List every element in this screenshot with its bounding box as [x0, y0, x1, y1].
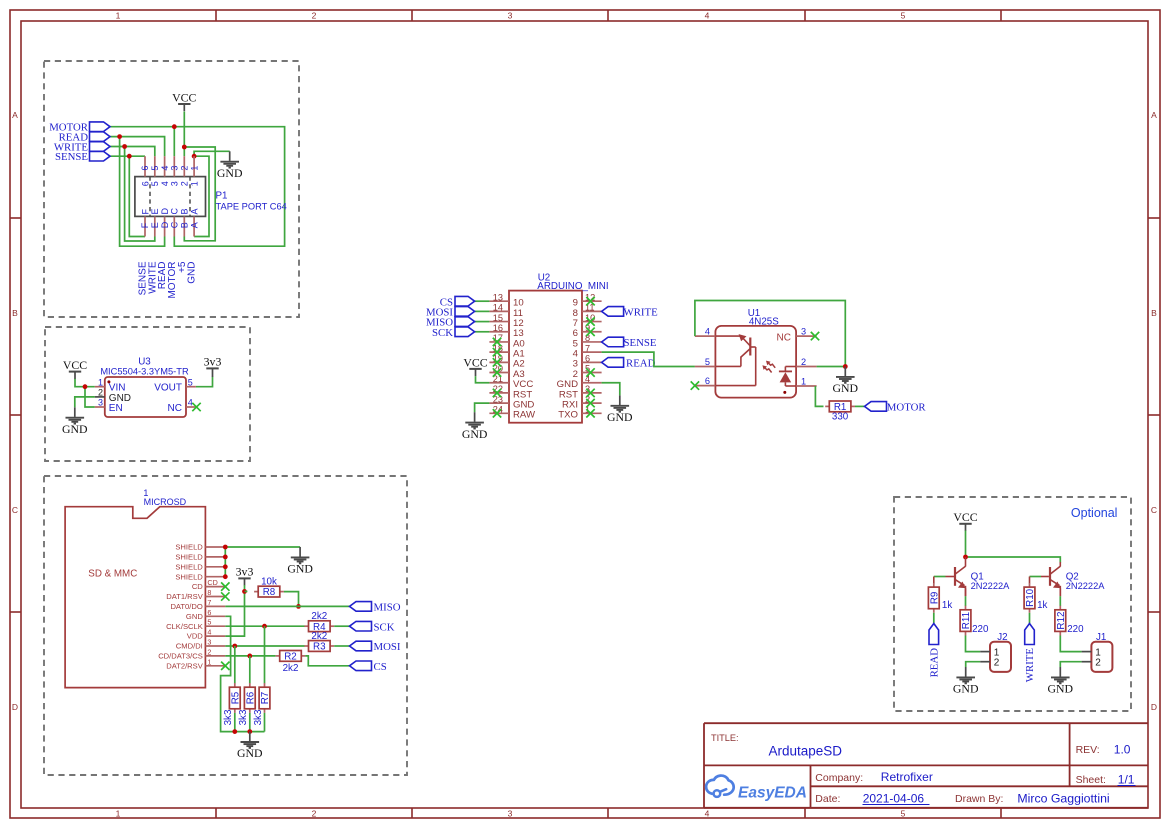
svg-text:1: 1 — [189, 166, 199, 171]
svg-text:ArdutapeSD: ArdutapeSD — [769, 744, 843, 759]
net flag MOTOR — [49, 122, 110, 134]
net flag CS (U2) — [475, 300, 490, 302]
svg-text:4: 4 — [160, 181, 170, 186]
wire SD GND pin to rail — [221, 616, 265, 731]
svg-text:D: D — [160, 208, 170, 215]
svg-text:10k: 10k — [261, 576, 277, 587]
ground GND (tape port) — [217, 151, 243, 180]
junction CLK/R7 — [262, 624, 267, 629]
wire CD/DAT3/CS to R2 — [225, 655, 275, 657]
regulator U3 MIC5504-3.3YM5-TR — [95, 357, 196, 418]
wire U2 GND pin23 to ground — [475, 403, 490, 412]
wire R10 to WRITE flag — [1029, 613, 1031, 624]
svg-text:5: 5 — [150, 166, 160, 171]
svg-text:2: 2 — [801, 357, 806, 367]
svg-text:GND: GND — [833, 381, 859, 395]
wire CLK/SCLK to R4 — [225, 625, 304, 627]
no-connect X at U1 pin6 — [691, 381, 699, 389]
svg-text:CS: CS — [374, 661, 387, 673]
svg-text:J1: J1 — [1096, 632, 1106, 643]
svg-text:5: 5 — [150, 181, 160, 186]
power 3v3 (U3) — [204, 354, 222, 377]
power VCC (tape port) — [172, 90, 196, 111]
svg-text:4: 4 — [705, 11, 710, 21]
svg-text:SD & MMC: SD & MMC — [88, 568, 137, 579]
svg-text:4: 4 — [160, 166, 170, 171]
svg-text:6: 6 — [705, 376, 710, 386]
ground GND (J1) — [1048, 667, 1074, 696]
wire SENSE net to pin 6 and pin F — [110, 156, 145, 236]
net flag WRITE (optional) — [1024, 624, 1036, 683]
svg-text:P1: P1 — [216, 191, 228, 202]
svg-text:Optional: Optional — [1071, 506, 1118, 520]
svg-text:TAPE PORT C64: TAPE PORT C64 — [216, 202, 287, 212]
svg-text:2k2: 2k2 — [311, 611, 327, 622]
svg-text:C: C — [170, 208, 180, 215]
svg-text:1: 1 — [116, 809, 121, 819]
flag shape MISO — [426, 317, 475, 329]
flag shape CS — [440, 296, 475, 308]
svg-text:3: 3 — [508, 809, 513, 819]
wire DAT0/DO to MISO flag — [225, 605, 349, 607]
svg-text:1: 1 — [190, 181, 200, 186]
svg-text:NC: NC — [777, 332, 791, 343]
junction at READ branch — [117, 134, 122, 139]
junction SHIELD 4 — [223, 574, 228, 579]
svg-text:R5: R5 — [230, 691, 241, 704]
no-connect X at U3 NC — [192, 403, 200, 411]
wire 3v3 to R8 and VDD — [225, 585, 244, 636]
svg-text:A: A — [12, 110, 18, 120]
svg-text:DAT1/RSV: DAT1/RSV — [166, 592, 204, 601]
ground GND (shield) — [287, 547, 313, 576]
no-connect X at U2 right 7 — [586, 317, 594, 325]
no-connect X at U1 NC pin3 — [811, 332, 819, 340]
resistor R8 — [254, 576, 284, 598]
net flag SCK — [350, 621, 395, 633]
svg-text:R12: R12 — [1056, 612, 1067, 630]
svg-text:SENSE: SENSE — [624, 337, 657, 349]
svg-text:1: 1 — [98, 377, 103, 387]
svg-text:6: 6 — [140, 166, 150, 171]
microcontroller U2 ARDUINO_MINI — [489, 272, 608, 422]
svg-text:4: 4 — [705, 327, 710, 337]
power VCC (U3) — [63, 358, 87, 379]
svg-text:3: 3 — [508, 11, 513, 21]
svg-text:SHIELD: SHIELD — [175, 562, 203, 571]
svg-text:1k: 1k — [1037, 600, 1047, 611]
EasyEDA logo — [706, 776, 807, 802]
wire R7 pullup — [264, 626, 266, 683]
svg-text:5: 5 — [207, 618, 211, 627]
svg-text:R10: R10 — [1025, 588, 1036, 607]
wire R6 bottom — [249, 713, 251, 732]
resistor R10 — [1024, 583, 1047, 613]
svg-text:SHIELD: SHIELD — [175, 553, 203, 562]
junction U1 ground — [843, 364, 848, 369]
svg-text:D: D — [1151, 702, 1157, 712]
resistor R1 — [825, 401, 855, 422]
svg-text:3: 3 — [207, 638, 211, 647]
svg-text:2N2222A: 2N2222A — [971, 581, 1011, 591]
svg-text:DAT2/RSV: DAT2/RSV — [166, 661, 204, 670]
svg-text:Date:: Date: — [815, 793, 840, 805]
svg-text:6: 6 — [585, 354, 590, 364]
svg-text:R9: R9 — [929, 592, 940, 605]
junction R6 bottom — [247, 729, 252, 734]
wire R1 to MOTOR flag — [855, 405, 865, 407]
wire U3 VOUT to 3v3 — [196, 377, 213, 387]
svg-text:R2: R2 — [284, 652, 297, 663]
svg-text:1k: 1k — [942, 600, 952, 611]
junction at U3 VIN — [83, 384, 88, 389]
svg-text:7: 7 — [207, 598, 211, 607]
svg-text:2: 2 — [312, 11, 317, 21]
transistor Q1 2N2222A — [955, 557, 1010, 596]
connector J2 — [980, 632, 1011, 672]
junction R5 bottom — [232, 729, 237, 734]
svg-text:2021-04-06: 2021-04-06 — [863, 792, 925, 806]
resistor R3 — [304, 631, 334, 653]
svg-text:Drawn By:: Drawn By: — [955, 793, 1003, 805]
power 3v3 (SD) — [236, 565, 254, 586]
svg-text:6: 6 — [140, 181, 150, 186]
svg-text:4N25S: 4N25S — [749, 317, 779, 328]
svg-text:SHIELD: SHIELD — [175, 572, 203, 581]
net labels under tape port — [138, 261, 198, 298]
transistor Q2 2N2222A — [1050, 562, 1105, 596]
no-connect X at CD — [221, 582, 229, 590]
svg-text:R11: R11 — [961, 612, 972, 629]
svg-text:4: 4 — [188, 398, 193, 408]
wire U3 GND pin to ground — [75, 397, 95, 407]
svg-text:5: 5 — [705, 357, 710, 367]
wire R4 to SCK flag — [334, 625, 349, 627]
svg-text:3: 3 — [170, 166, 180, 171]
svg-text:F: F — [140, 209, 150, 215]
resistor R11 — [960, 606, 989, 636]
svg-text:E: E — [150, 222, 160, 228]
svg-text:CD/DAT3/CS: CD/DAT3/CS — [158, 652, 203, 661]
wire R12 to J1 pin1 — [1060, 636, 1081, 652]
svg-text:B: B — [1151, 308, 1157, 318]
svg-text:2: 2 — [98, 388, 103, 398]
svg-text:MIC5504-3.3YM5-TR: MIC5504-3.3YM5-TR — [100, 367, 189, 377]
net flag MISO (U2) — [475, 321, 490, 323]
label Optional — [1071, 506, 1118, 520]
resistor R7 — [253, 683, 271, 725]
wire R2 to CS flag — [305, 656, 349, 666]
no-connect X at U2 left A1 — [493, 348, 501, 356]
net flag MOSI — [350, 641, 401, 653]
svg-text:CMD/DI: CMD/DI — [176, 642, 203, 651]
svg-text:D: D — [160, 221, 170, 228]
svg-text:C: C — [12, 505, 18, 515]
wire VCC to Q1 Q2 collectors — [966, 531, 1061, 563]
svg-text:TXO: TXO — [558, 410, 578, 421]
title block — [704, 723, 1148, 808]
wire U2 pin7 to U1 pin5 — [602, 352, 695, 366]
ground GND (U1) — [833, 367, 859, 396]
junction 3v3/R8 — [242, 589, 247, 594]
no-connect X at U2 right 9 — [586, 297, 594, 305]
svg-text:VOUT: VOUT — [154, 383, 182, 394]
svg-text:14: 14 — [493, 303, 503, 313]
ground GND (J2) — [953, 667, 979, 696]
wire Q1 emitter to R11 — [965, 588, 967, 606]
svg-text:13: 13 — [493, 292, 503, 302]
junction VCC optional — [963, 555, 968, 560]
svg-text:220: 220 — [972, 624, 989, 635]
svg-text:GND: GND — [217, 166, 243, 180]
svg-text:3v3: 3v3 — [236, 565, 254, 579]
wire U1 pin1 to R1 — [815, 386, 823, 406]
power VCC (optional) — [953, 510, 977, 531]
svg-text:2: 2 — [180, 166, 190, 171]
svg-text:R3: R3 — [313, 642, 326, 653]
svg-text:E: E — [150, 208, 160, 214]
svg-text:J2: J2 — [997, 632, 1007, 643]
flag shape MOSI — [426, 306, 475, 318]
junction SHIELD 1 — [223, 545, 228, 550]
svg-text:A: A — [189, 222, 199, 228]
svg-text:3k3: 3k3 — [223, 709, 234, 725]
wire R5 pullup — [234, 646, 236, 683]
svg-text:WRITE: WRITE — [1024, 648, 1036, 683]
svg-text:RAW: RAW — [513, 410, 536, 421]
no-connect X at U2 left A0 — [493, 338, 501, 346]
wire R8 left — [245, 590, 248, 592]
ground GND (U3) — [62, 407, 88, 436]
svg-text:WRITE: WRITE — [624, 306, 659, 318]
ground GND (U2 right) — [607, 395, 633, 424]
wire R6 pullup — [249, 656, 251, 684]
svg-text:GND: GND — [187, 262, 198, 284]
net flag READ — [602, 357, 656, 369]
svg-text:1/1: 1/1 — [1118, 773, 1135, 787]
svg-text:SHIELD: SHIELD — [175, 543, 203, 552]
svg-text:7: 7 — [585, 343, 590, 353]
wire Q2 emitter to R12 — [1059, 588, 1061, 606]
connector J1 — [1082, 632, 1113, 672]
svg-text:3: 3 — [98, 398, 103, 408]
svg-text:A: A — [1151, 110, 1157, 120]
svg-text:A: A — [190, 208, 200, 214]
wire Q1 base to R9 — [934, 577, 954, 584]
svg-text:CLK/SCLK: CLK/SCLK — [166, 622, 203, 631]
svg-text:1: 1 — [116, 11, 121, 21]
svg-text:1.0: 1.0 — [1114, 743, 1131, 757]
junction at GND pin1 — [192, 154, 197, 159]
wire VCC to U3 VIN and EN — [75, 378, 95, 407]
wire SHIELD pins to ground — [225, 547, 300, 577]
svg-text:B: B — [180, 222, 190, 228]
svg-text:5: 5 — [188, 377, 193, 387]
net flag SCK (U2) — [475, 331, 490, 333]
svg-text:GND: GND — [607, 410, 633, 424]
svg-text:SCK: SCK — [374, 621, 395, 633]
svg-text:VCC: VCC — [172, 90, 196, 104]
wire U1 pin4 to ground — [695, 301, 845, 367]
resistor R4 — [304, 611, 334, 633]
svg-text:5: 5 — [901, 809, 906, 819]
svg-text:MISO: MISO — [374, 602, 401, 614]
svg-text:Retrofixer: Retrofixer — [881, 770, 933, 784]
svg-text:8: 8 — [207, 588, 211, 597]
section box: sd card — [44, 476, 407, 775]
wire MOTOR net to pin 3 and pin C — [110, 127, 285, 247]
power VCC (U2) — [463, 355, 487, 376]
junction at VCC branch — [182, 145, 187, 150]
svg-text:SENSE: SENSE — [55, 151, 88, 163]
svg-text:Mirco Gaggiottini: Mirco Gaggiottini — [1017, 792, 1109, 806]
ground GND (pulldowns) — [237, 732, 263, 761]
net flag READ — [59, 132, 110, 144]
svg-text:READ: READ — [626, 357, 656, 369]
svg-text:SCK: SCK — [432, 327, 453, 339]
svg-text:NC: NC — [168, 403, 182, 414]
no-connect X at U2 right 2 — [586, 368, 594, 376]
svg-text:B: B — [12, 308, 18, 318]
junction DAT3/R6 — [247, 654, 252, 659]
net flag WRITE — [54, 141, 110, 153]
svg-text:1: 1 — [801, 377, 806, 387]
svg-text:MICROSD: MICROSD — [144, 497, 187, 507]
svg-text:16: 16 — [493, 323, 503, 333]
svg-text:R8: R8 — [263, 587, 276, 598]
wire R3 to MOSI flag — [334, 645, 349, 647]
svg-text:2: 2 — [312, 809, 317, 819]
wire J2 pin2 to ground — [966, 662, 981, 667]
resistor R2 — [276, 651, 306, 674]
wire READ net to pin 4 and pin D — [110, 137, 165, 247]
net flag SENSE — [602, 337, 657, 349]
svg-text:R7: R7 — [260, 692, 271, 705]
svg-text:4: 4 — [705, 809, 710, 819]
svg-text:330: 330 — [832, 411, 849, 422]
svg-text:2: 2 — [180, 181, 190, 186]
svg-text:VCC: VCC — [463, 355, 487, 369]
wire VCC to U2 pin21 — [476, 376, 490, 383]
svg-text:CD: CD — [192, 582, 203, 591]
resistor R6 — [238, 683, 256, 725]
svg-text:TITLE:: TITLE: — [711, 733, 739, 743]
svg-text:B: B — [180, 208, 190, 214]
wire VCC to pin 2 and pin B — [184, 112, 215, 241]
svg-text:2: 2 — [207, 647, 211, 656]
junction at WRITE branch — [122, 144, 127, 149]
svg-text:3k3: 3k3 — [238, 709, 249, 725]
net flag MOSI (U2) — [475, 310, 490, 312]
wire R5 bottom — [234, 713, 236, 732]
svg-text:2: 2 — [1095, 658, 1101, 669]
svg-text:2: 2 — [994, 658, 1000, 669]
svg-text:GND: GND — [237, 746, 263, 760]
net flag WRITE — [602, 306, 658, 318]
svg-text:VCC: VCC — [63, 358, 87, 372]
svg-text:3: 3 — [170, 181, 180, 186]
wire U2 GND pin4 to ground — [602, 383, 620, 396]
svg-text:GND: GND — [62, 422, 88, 436]
no-connect X at U2 left RST — [493, 389, 501, 397]
svg-text:2k2: 2k2 — [311, 631, 327, 642]
resistor R9 — [928, 583, 952, 613]
no-connect X at U2 left RAW — [493, 409, 501, 417]
svg-text:GND: GND — [186, 612, 203, 621]
no-connect X at U2 right RST — [586, 389, 594, 397]
optocoupler U1 4N25S — [695, 308, 817, 398]
junction CMD/R5 — [232, 644, 237, 649]
junction SHIELD 2 — [223, 555, 228, 560]
svg-text:Company:: Company: — [815, 772, 863, 784]
svg-text:CD: CD — [207, 578, 217, 587]
no-connect X at U2 left A3 — [493, 368, 501, 376]
svg-text:2N2222A: 2N2222A — [1066, 581, 1106, 591]
flag shape SCK — [432, 327, 475, 339]
no-connect X at U2 right TXO — [586, 409, 594, 417]
wire R11 to J2 pin1 — [966, 636, 981, 652]
ground GND (U2 left) — [462, 412, 488, 441]
net flag READ (optional) — [928, 624, 940, 678]
svg-text:F: F — [140, 222, 150, 228]
wire Q2 base to R10 — [1030, 577, 1049, 584]
wire WRITE net to pin 5 and pin E — [110, 147, 155, 242]
svg-text:EN: EN — [109, 403, 123, 414]
wire CMD/DI to R3 — [225, 645, 304, 647]
connector SD & MMC MICROSD — [65, 488, 225, 687]
junction at SENSE branch — [127, 154, 132, 159]
no-connect X at U2 right RXI — [586, 399, 594, 407]
connector P1 TAPE PORT C64 — [135, 156, 287, 236]
resistor R12 — [1055, 606, 1084, 636]
svg-text:GND: GND — [462, 427, 488, 441]
svg-text:C: C — [1151, 505, 1157, 515]
net flag CS — [350, 661, 387, 673]
svg-text:D: D — [12, 702, 18, 712]
svg-text:READ: READ — [928, 648, 940, 678]
svg-text:R6: R6 — [245, 691, 256, 704]
no-connect X at DAT2/RSV — [221, 662, 229, 670]
svg-text:C: C — [170, 221, 180, 228]
svg-text:2k2: 2k2 — [283, 663, 299, 674]
svg-text:GND: GND — [1048, 682, 1074, 696]
svg-text:5: 5 — [901, 11, 906, 21]
junction R8/MISO — [296, 604, 301, 609]
svg-text:3k3: 3k3 — [253, 709, 264, 725]
section box: regulator — [45, 327, 250, 461]
wire J1 pin2 to ground — [1060, 662, 1081, 667]
svg-text:GND: GND — [953, 682, 979, 696]
junction SHIELD 3 — [223, 564, 228, 569]
no-connect X at U2 left A2 — [493, 358, 501, 366]
resistor R5 — [223, 683, 241, 725]
junction at MOTOR/pin3 — [172, 124, 177, 129]
svg-text:VCC: VCC — [953, 510, 977, 524]
net flag SENSE — [55, 151, 110, 163]
svg-text:15: 15 — [493, 313, 503, 323]
wire R9 to READ flag — [933, 613, 935, 624]
svg-text:MOTOR: MOTOR — [887, 402, 927, 414]
svg-text:1: 1 — [207, 657, 211, 666]
section box: optional — [894, 497, 1131, 711]
net flag MISO — [350, 602, 401, 614]
net flag MOTOR (U1) — [865, 402, 927, 414]
svg-text:DAT0/DO: DAT0/DO — [170, 602, 202, 611]
svg-text:3: 3 — [801, 327, 806, 337]
svg-text:6: 6 — [207, 608, 211, 617]
svg-text:EasyEDA: EasyEDA — [738, 784, 807, 801]
wire U1 pin2 to ground — [817, 366, 846, 368]
